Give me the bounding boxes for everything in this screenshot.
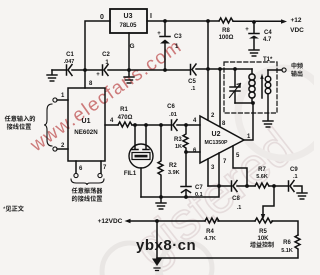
svg-text:U3: U3 bbox=[124, 13, 133, 20]
resistor R8 bbox=[219, 18, 233, 23]
resistor R7 bbox=[255, 183, 269, 188]
wire C2 to C5 bbox=[108, 69, 190, 71]
trimmer capacitor in T1 bbox=[230, 69, 240, 103]
svg-text:470Ω: 470Ω bbox=[118, 115, 133, 121]
ground bus wire bbox=[141, 186, 219, 197]
U2 pin3 wire bbox=[207, 159, 209, 186]
node pin3/7 bus bbox=[217, 184, 221, 188]
svg-text:.047: .047 bbox=[64, 59, 75, 65]
svg-text:.1: .1 bbox=[237, 205, 242, 211]
wire U3 G pin bbox=[128, 33, 130, 76]
wire to U2 pin6 bbox=[186, 151, 200, 153]
svg-text:8: 8 bbox=[89, 81, 93, 87]
oscillator brace bbox=[71, 179, 104, 185]
node pin2 riser mid bbox=[206, 67, 210, 71]
node C6 out bbox=[184, 123, 188, 127]
node R5 tap bbox=[272, 184, 276, 188]
+12VDC arrowhead bbox=[281, 19, 287, 24]
filter FIL1 bbox=[132, 125, 149, 150]
T1 secondary coil bbox=[267, 70, 269, 76]
svg-text:R1: R1 bbox=[120, 107, 128, 113]
wire C1 to junction bbox=[72, 69, 102, 71]
node R2 top bbox=[159, 123, 163, 127]
wire to U2 pin4 bbox=[177, 124, 200, 126]
resistor R6 bbox=[295, 235, 300, 249]
regulator U3 box bbox=[110, 9, 147, 33]
wire top rail left + U1 pin8 drop bbox=[85, 21, 110, 88]
svg-text:1: 1 bbox=[61, 93, 65, 99]
capacitor C5 bbox=[191, 64, 197, 75]
input brace bbox=[44, 104, 52, 146]
svg-text:C3: C3 bbox=[174, 34, 182, 40]
svg-text:U2: U2 bbox=[212, 131, 221, 138]
ground main bbox=[160, 197, 162, 202]
svg-text:.1: .1 bbox=[191, 86, 196, 92]
wire R6 to gnd run bbox=[157, 250, 298, 258]
capacitor C7 bbox=[181, 152, 191, 197]
capacitor C9 bbox=[289, 181, 295, 192]
svg-text:2: 2 bbox=[61, 143, 65, 149]
svg-text:T1*: T1* bbox=[263, 57, 273, 63]
svg-text:输出: 输出 bbox=[291, 69, 303, 78]
wire R5 to R6 bbox=[272, 221, 298, 235]
svg-text:6: 6 bbox=[193, 148, 197, 154]
wire R7 to C9 bbox=[269, 185, 288, 187]
U1 pin4 wire bbox=[105, 124, 118, 126]
svg-text:C4: C4 bbox=[264, 30, 272, 36]
wire trimmer bottom to coil bbox=[235, 102, 253, 104]
svg-text:C2: C2 bbox=[102, 52, 110, 58]
svg-text:C7: C7 bbox=[195, 185, 203, 191]
svg-text:8: 8 bbox=[222, 121, 226, 127]
node T1 primary bottom bbox=[251, 101, 255, 105]
ground C9 bbox=[297, 193, 307, 199]
svg-text:R6: R6 bbox=[283, 240, 291, 246]
U1 pin1 bbox=[57, 99, 68, 101]
wire C9 to gnd bbox=[294, 186, 302, 192]
svg-text:R7: R7 bbox=[258, 167, 266, 173]
node trimmer top bbox=[233, 67, 237, 71]
resistor R4 bbox=[205, 218, 219, 223]
svg-text:5.1K: 5.1K bbox=[281, 248, 293, 254]
watermark gray circle bottom mid bbox=[160, 242, 212, 275]
node C4 top bbox=[252, 20, 256, 24]
wire R4 to R5 bbox=[218, 220, 255, 222]
svg-text:R3: R3 bbox=[174, 137, 182, 143]
potentiometer R5 bbox=[255, 218, 273, 223]
wire R1 to C6 bbox=[132, 124, 171, 126]
svg-text:2: 2 bbox=[211, 113, 215, 119]
svg-text:C1: C1 bbox=[66, 52, 74, 58]
svg-text:4.7K: 4.7K bbox=[204, 236, 216, 242]
wire gnd to C1 bbox=[52, 69, 66, 71]
svg-text:7: 7 bbox=[103, 165, 107, 171]
wire R5 wiper bbox=[263, 186, 274, 214]
svg-text:R5: R5 bbox=[259, 229, 267, 235]
capacitor C6 bbox=[172, 120, 178, 131]
T1 primary coil bbox=[251, 69, 253, 74]
svg-text:.01: .01 bbox=[169, 112, 177, 118]
node C3 top bbox=[163, 19, 167, 23]
svg-text:R4: R4 bbox=[206, 229, 214, 235]
watermark gray circle bottom left bbox=[102, 243, 158, 275]
capacitor C2 electrolytic bbox=[103, 65, 109, 76]
+12VDC arrowhead left bbox=[125, 219, 131, 223]
wire T1 to U2 pin1 bbox=[244, 103, 253, 140]
svg-text:R8: R8 bbox=[222, 28, 230, 34]
svg-text:0: 0 bbox=[100, 14, 104, 21]
wire C5 to T1 bbox=[196, 68, 252, 70]
node R3 bottom pin6 bbox=[184, 150, 188, 154]
op-amp U2 triangle bbox=[200, 116, 244, 163]
wiper arrowhead bbox=[261, 214, 265, 220]
svg-text:6: 6 bbox=[79, 166, 83, 172]
svg-text:ybx8·cn: ybx8·cn bbox=[136, 237, 196, 254]
resistor R1 bbox=[118, 122, 132, 127]
ground C4 bbox=[249, 50, 259, 56]
wire U3 out to R8 bbox=[147, 20, 219, 22]
svg-text:+12VDC: +12VDC bbox=[98, 218, 123, 225]
svg-text:1K: 1K bbox=[175, 144, 182, 150]
resistor R2 bbox=[158, 125, 163, 197]
ground arrow style bbox=[152, 259, 162, 267]
capacitor C1 bbox=[67, 65, 73, 76]
wire bypass to gnd bbox=[156, 221, 158, 258]
node U3 G gnd bbox=[127, 68, 131, 72]
node R2 bottom bbox=[159, 195, 163, 199]
svg-text:100Ω: 100Ω bbox=[219, 35, 234, 41]
svg-text:4: 4 bbox=[110, 118, 114, 124]
svg-text:增益控制: 增益控制 bbox=[250, 240, 274, 249]
transformer T1 dashed box bbox=[224, 62, 277, 113]
ground U3 G bbox=[124, 77, 134, 83]
ground T1 secondary bbox=[263, 121, 273, 127]
capacitor C8 bbox=[232, 181, 238, 192]
node pin5 join bbox=[245, 184, 249, 188]
IC U1 box bbox=[68, 88, 105, 161]
node C7 bottom bbox=[184, 195, 188, 199]
node C1-C2-pin8 junction bbox=[83, 68, 87, 72]
svg-text:C5: C5 bbox=[188, 79, 196, 85]
svg-text:4: 4 bbox=[193, 118, 197, 124]
svg-text:VDC: VDC bbox=[290, 27, 304, 34]
svg-text:+: + bbox=[96, 72, 100, 78]
capacitor C3 electrolytic bbox=[160, 21, 170, 70]
svg-text:C8: C8 bbox=[232, 196, 240, 202]
wire +12VDC feed bbox=[129, 220, 205, 222]
svg-text:+: + bbox=[245, 27, 249, 33]
node FIL1 right lead bbox=[144, 123, 148, 127]
node C3 bottom bbox=[163, 68, 167, 72]
svg-text:R2: R2 bbox=[169, 163, 177, 169]
svg-text:的接线位置: 的接线位置 bbox=[72, 194, 103, 203]
node pin8 riser top bbox=[218, 67, 222, 71]
svg-text:*见正文: *见正文 bbox=[3, 204, 25, 213]
U2 pin7 wire bbox=[218, 153, 220, 186]
output terminal bbox=[282, 68, 286, 72]
U1 pin7 bbox=[100, 161, 102, 173]
ground C1 bbox=[51, 70, 53, 74]
svg-text:5.6K: 5.6K bbox=[256, 174, 268, 180]
svg-text:C9: C9 bbox=[290, 167, 298, 173]
svg-text:NE602N: NE602N bbox=[74, 129, 98, 136]
capacitor C4 electrolytic bbox=[249, 22, 259, 49]
svg-text:+: + bbox=[157, 31, 161, 37]
T1 core arrow bbox=[261, 78, 263, 98]
svg-text:接线位置: 接线位置 bbox=[7, 122, 32, 131]
node pin2 riser top bbox=[206, 19, 210, 23]
U1 pin6 bbox=[75, 161, 77, 173]
svg-text:4.7: 4.7 bbox=[263, 37, 272, 43]
svg-text:G: G bbox=[129, 43, 134, 50]
U1 pin2 bbox=[57, 148, 68, 150]
svg-text:1: 1 bbox=[105, 60, 109, 66]
svg-text:+12: +12 bbox=[290, 17, 301, 24]
svg-text:FIL1: FIL1 bbox=[124, 171, 137, 177]
svg-text:U1: U1 bbox=[82, 118, 91, 125]
wire gnd row bbox=[208, 185, 255, 187]
wire R8 to +12 arrow bbox=[233, 20, 281, 22]
wire riser U2 pin8 bbox=[219, 69, 221, 126]
node bypass tap bbox=[155, 219, 159, 223]
svg-text:.1: .1 bbox=[293, 174, 298, 180]
watermark gray circle top right bbox=[238, 68, 320, 158]
resistor R3 bbox=[183, 125, 188, 152]
U2 pin5 wire bbox=[233, 146, 247, 186]
svg-text:3.9K: 3.9K bbox=[168, 170, 180, 176]
node FIL1 left lead bbox=[133, 123, 137, 127]
svg-text:MC1350P: MC1350P bbox=[204, 140, 228, 146]
svg-text:C6: C6 bbox=[167, 104, 175, 110]
wire riser U2 pin2 bbox=[207, 21, 209, 120]
svg-text:I: I bbox=[150, 13, 152, 20]
svg-text:78L05: 78L05 bbox=[119, 23, 137, 29]
wire secondary to output bbox=[268, 69, 282, 71]
